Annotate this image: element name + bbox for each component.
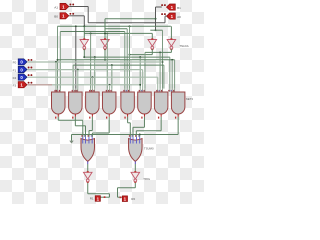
svg-text:R1: R1 [90,196,94,200]
wire O1 to U5 [87,164,89,172]
dangling wire with arrow [69,135,73,144]
AND gate G3 [86,89,100,119]
svg-text:F3: F3 [13,84,17,88]
svg-text:F2: F2 [13,76,17,80]
bus wire y22.8 (dark) [88,22,165,24]
input pin F0 (left) [13,59,33,65]
output pin R1 [90,196,106,202]
AND gate G5 [121,89,135,119]
AND gate G1 [52,89,66,119]
input pin F3 (left) [13,82,33,88]
wire G6 output [133,117,144,137]
wire G2 output [75,117,85,137]
bus wire y30.2 right [150,30,163,88]
wire F3 run [28,84,142,89]
input pin F1 (left) [13,66,33,72]
input pin A1 (top-left) [54,3,74,9]
wire G5 output [128,117,131,137]
AND gate G8 [168,89,185,119]
tap wire G5 right [129,26,131,88]
svg-text:A1: A1 [54,5,58,9]
input pin B1 (top-right) [161,4,181,10]
tap wire G3 right [94,56,96,88]
wire G7 output [136,117,161,137]
inverter U5 [83,171,92,183]
distribution wire y65.1 [73,64,164,88]
svg-text:B1: B1 [177,6,181,10]
tap wire G6 left [139,56,141,88]
distribution wire y59.8 [58,59,175,89]
wire from pin B0 [69,16,84,26]
inverter U2 input [104,19,106,40]
inverter U2 output [104,49,106,61]
vertical into G1 left [57,26,59,88]
wire F1 run [28,69,143,89]
wire from pin A1 [69,7,88,23]
inverter U3 [148,38,157,50]
svg-text:A0: A0 [177,15,181,19]
tap wire G7 mid [159,52,161,88]
input pin B0 (top-left) [54,13,74,19]
inverter U1 [80,38,89,50]
wire TR1 run y18.7 [105,18,156,20]
OR gate O1 [81,135,95,164]
bus wire y33.4 [84,32,152,88]
bus wire y31.5 [60,32,125,89]
svg-text:TSUM0: TSUM0 [144,147,154,151]
inverter U3 output [129,49,153,56]
inverter U4 [167,38,189,50]
svg-text:R0: R0 [131,197,135,201]
wire from pin B1 [155,7,162,31]
dark tap to G2 [75,26,77,88]
svg-text:F1: F1 [13,68,17,72]
bus wire y26.3 [58,25,171,27]
wire from pin A0 [165,16,167,23]
svg-text:TNLDA: TNLDA [179,44,188,48]
output pin R0 [120,196,136,202]
inverter U4 input [170,26,172,39]
AND gate G7 [154,89,168,119]
input pin F2 (left) [13,74,33,80]
OR gate O2 [129,135,154,164]
inverter U6 [131,171,151,183]
distribution wire y57.1 [84,57,170,89]
inverter U1 input [83,26,85,39]
wire O2 to U6 [134,164,136,172]
svg-text:B0: B0 [54,15,58,19]
bus wire y28.8 [105,29,127,89]
wire G3 output [89,117,92,137]
inverter U4 output [145,49,171,89]
wire F0 run [28,61,163,89]
svg-text:NET3: NET3 [186,97,194,101]
input pin A0 (top-right) [161,13,181,19]
wire G4 output [92,117,109,137]
tap wire G4 left [106,32,108,88]
wire G1 output [58,117,83,137]
wire G8 output [72,117,179,137]
svg-text:TR0s: TR0s [143,177,150,181]
AND gate G4 [102,89,116,119]
wire U5 to R1 [88,183,110,198]
AND gate G6 [138,89,152,119]
inverter U1 output [83,49,85,58]
wire U6 to R0 [118,183,136,198]
inverter U3 input [151,33,153,39]
AND gate G2 [69,89,83,119]
svg-text:F0: F0 [13,61,17,65]
wire F2 run [28,76,158,88]
inverter U2 [101,38,110,50]
